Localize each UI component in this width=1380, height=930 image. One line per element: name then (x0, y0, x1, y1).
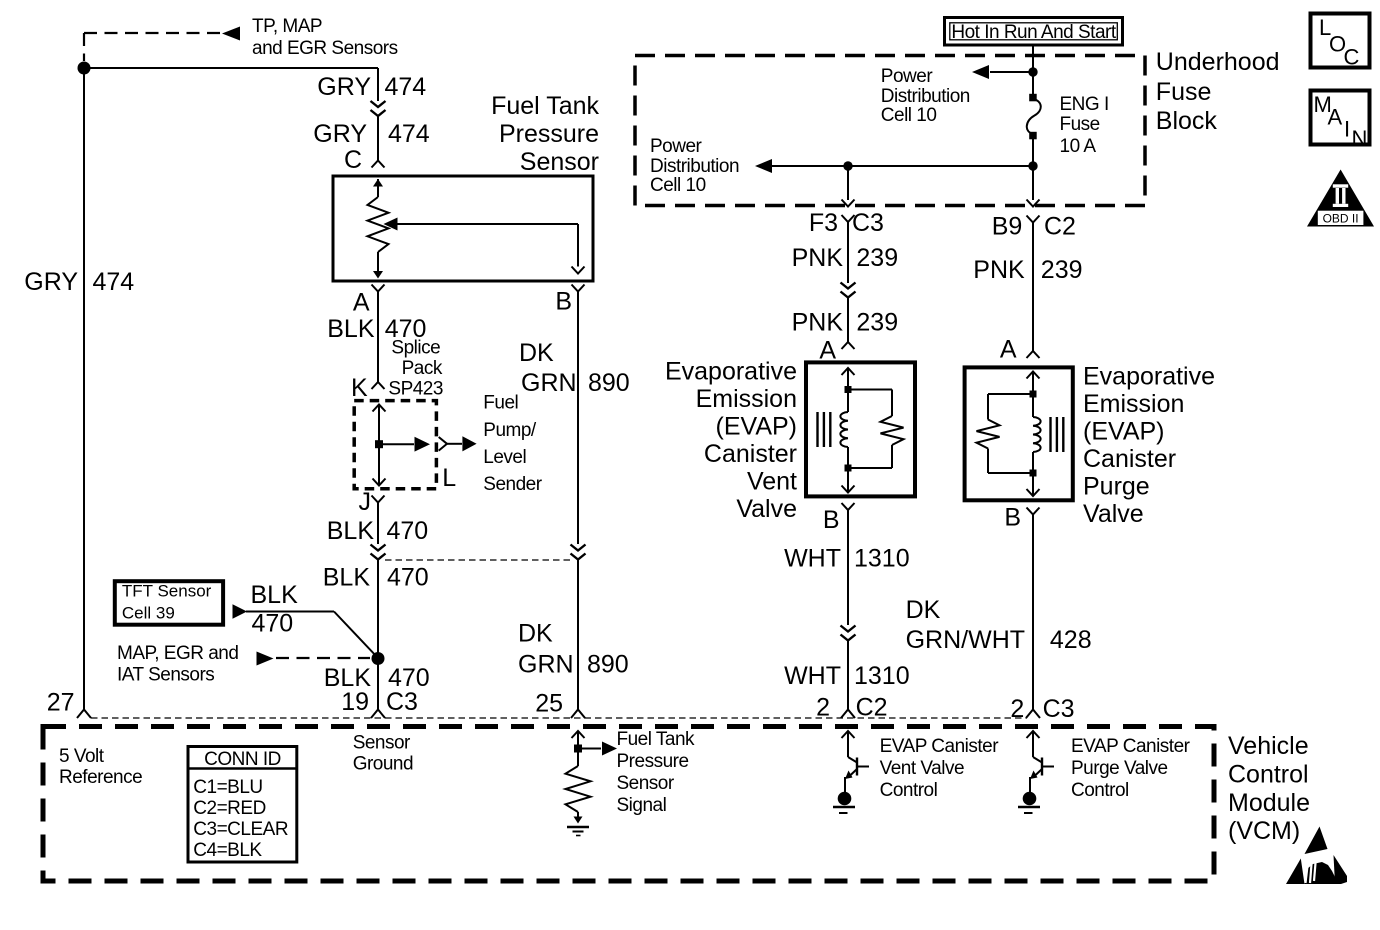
svg-text:F3: F3 (809, 209, 838, 237)
svg-text:PNK: PNK (792, 309, 844, 337)
svg-text:Cell 10: Cell 10 (650, 175, 706, 196)
svg-text:470: 470 (387, 517, 429, 545)
svg-text:890: 890 (587, 651, 629, 679)
svg-text:Reference: Reference (59, 767, 142, 788)
svg-text:Ground: Ground (353, 754, 413, 775)
svg-text:(VCM): (VCM) (1228, 817, 1300, 845)
svg-text:474: 474 (93, 268, 135, 296)
svg-text:Fuel: Fuel (483, 393, 518, 414)
svg-text:470: 470 (252, 610, 294, 638)
svg-text:Emission: Emission (696, 385, 797, 413)
svg-text:Fuel Tank: Fuel Tank (491, 92, 599, 120)
svg-text:Pressure: Pressure (499, 120, 599, 148)
svg-text:BLK: BLK (327, 315, 375, 343)
svg-text:Evaporative: Evaporative (665, 358, 797, 386)
svg-text:GRY: GRY (24, 268, 78, 296)
svg-text:K: K (351, 374, 368, 402)
svg-text:Valve: Valve (1083, 500, 1144, 528)
svg-text:Fuel Tank: Fuel Tank (617, 729, 696, 750)
svg-text:Pressure: Pressure (617, 751, 689, 772)
svg-text:Hot In Run And Start: Hot In Run And Start (951, 22, 1116, 43)
svg-text:Purge Valve: Purge Valve (1071, 758, 1168, 779)
svg-text:Sensor: Sensor (353, 733, 411, 754)
svg-text:OBD II: OBD II (1323, 211, 1359, 225)
svg-text:Cell 10: Cell 10 (881, 105, 937, 126)
svg-text:B9: B9 (992, 213, 1023, 241)
svg-text:GRN: GRN (521, 369, 577, 397)
svg-text:BLK: BLK (327, 517, 375, 545)
svg-text:2: 2 (1010, 695, 1024, 723)
svg-text:C: C (344, 146, 362, 174)
svg-text:Distribution: Distribution (881, 86, 970, 107)
svg-text:19: 19 (341, 688, 369, 716)
svg-text:B: B (1004, 504, 1021, 532)
svg-text:Vent: Vent (747, 468, 797, 496)
svg-text:474: 474 (388, 120, 430, 148)
svg-text:GRY: GRY (313, 120, 367, 148)
svg-text:Vehicle: Vehicle (1228, 732, 1309, 760)
svg-text:ENG I: ENG I (1060, 94, 1109, 115)
svg-text:Level: Level (483, 447, 526, 468)
svg-text:A: A (1328, 105, 1343, 130)
svg-text:SP423: SP423 (388, 379, 443, 400)
svg-text:(EVAP): (EVAP) (716, 413, 798, 441)
svg-text:C2: C2 (1044, 213, 1076, 241)
svg-text:Pack: Pack (402, 358, 443, 379)
svg-text:Signal: Signal (617, 795, 667, 816)
svg-text:Vent Valve: Vent Valve (880, 758, 964, 779)
svg-text:TFT Sensor: TFT Sensor (122, 582, 212, 601)
svg-text:A: A (819, 337, 836, 365)
svg-text:I: I (1344, 117, 1350, 142)
svg-text:WHT: WHT (784, 662, 841, 690)
svg-text:Cell 39: Cell 39 (122, 604, 175, 623)
svg-text:J: J (359, 488, 372, 516)
svg-text:GRN/WHT: GRN/WHT (906, 626, 1025, 654)
svg-text:(EVAP): (EVAP) (1083, 418, 1165, 446)
svg-text:GRY: GRY (317, 73, 371, 101)
svg-text:239: 239 (856, 309, 898, 337)
svg-text:DK: DK (906, 596, 941, 624)
svg-text:Splice: Splice (391, 337, 440, 358)
svg-text:A: A (353, 289, 370, 317)
svg-text:Canister: Canister (1083, 445, 1176, 473)
svg-text:EVAP Canister: EVAP Canister (1071, 736, 1191, 757)
svg-text:BLK: BLK (323, 564, 371, 592)
svg-text:PNK: PNK (792, 244, 844, 272)
svg-text:470: 470 (387, 564, 429, 592)
svg-text:Valve: Valve (736, 495, 797, 523)
svg-text:428: 428 (1050, 626, 1092, 654)
svg-text:239: 239 (856, 244, 898, 272)
svg-text:C1=BLU: C1=BLU (193, 777, 262, 798)
svg-text:Distribution: Distribution (650, 156, 739, 177)
svg-text:C3: C3 (1043, 695, 1075, 723)
svg-text:EVAP Canister: EVAP Canister (880, 736, 1000, 757)
svg-text:MAP, EGR and: MAP, EGR and (117, 643, 238, 664)
svg-text:TP, MAP: TP, MAP (252, 16, 322, 37)
svg-text:C3=CLEAR: C3=CLEAR (193, 819, 288, 840)
svg-text:IAT Sensors: IAT Sensors (117, 665, 214, 686)
svg-text:890: 890 (588, 369, 630, 397)
svg-text:Evaporative: Evaporative (1083, 363, 1215, 391)
svg-text:A: A (1000, 336, 1017, 364)
svg-text:B: B (555, 288, 572, 316)
svg-text:C3: C3 (386, 688, 418, 716)
svg-text:Sensor: Sensor (520, 148, 599, 176)
svg-text:Block: Block (1156, 107, 1218, 135)
svg-text:10 A: 10 A (1060, 136, 1097, 157)
svg-text:25: 25 (535, 690, 563, 718)
svg-text:Canister: Canister (704, 440, 797, 468)
svg-text:239: 239 (1041, 256, 1083, 284)
svg-text:WHT: WHT (784, 545, 841, 573)
svg-text:2: 2 (816, 694, 830, 722)
svg-text:Underhood: Underhood (1156, 48, 1280, 76)
svg-text:C: C (1344, 45, 1360, 70)
svg-text:Power: Power (881, 66, 934, 87)
svg-text:C4=BLK: C4=BLK (193, 840, 262, 861)
svg-text:Emission: Emission (1083, 390, 1184, 418)
svg-text:L: L (442, 464, 456, 492)
svg-text:Control: Control (1071, 780, 1129, 801)
svg-text:DK: DK (518, 620, 553, 648)
svg-text:27: 27 (47, 689, 75, 717)
svg-text:CONN ID: CONN ID (204, 749, 281, 770)
svg-text:B: B (823, 506, 840, 534)
svg-text:C2: C2 (856, 694, 888, 722)
svg-text:Sensor: Sensor (617, 773, 675, 794)
svg-text:C3: C3 (852, 209, 884, 237)
svg-text:and EGR Sensors: and EGR Sensors (252, 38, 398, 59)
svg-text:Fuse: Fuse (1156, 78, 1212, 106)
svg-text:Control: Control (1228, 761, 1309, 789)
svg-text:Fuse: Fuse (1060, 114, 1100, 135)
svg-text:Purge: Purge (1083, 473, 1150, 501)
svg-text:DK: DK (519, 339, 554, 367)
svg-text:Module: Module (1228, 789, 1310, 817)
svg-text:Control: Control (880, 780, 938, 801)
svg-text:Power: Power (650, 136, 703, 157)
svg-text:474: 474 (385, 73, 427, 101)
svg-text:BLK: BLK (251, 581, 299, 609)
svg-text:1310: 1310 (854, 662, 910, 690)
svg-text:N: N (1352, 126, 1368, 151)
svg-text:PNK: PNK (973, 256, 1025, 284)
svg-text:5 Volt: 5 Volt (59, 746, 105, 767)
svg-text:GRN: GRN (518, 651, 574, 679)
svg-text:Pump/: Pump/ (483, 420, 537, 441)
svg-text:Sender: Sender (483, 474, 542, 495)
svg-text:C2=RED: C2=RED (193, 798, 265, 819)
svg-text:1310: 1310 (854, 545, 910, 573)
